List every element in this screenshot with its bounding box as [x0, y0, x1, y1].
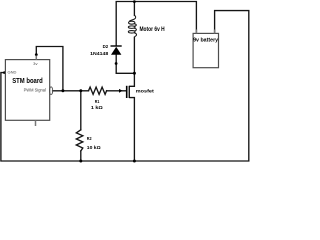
svg-text:GND: GND: [8, 70, 17, 75]
svg-text:1 kΩ: 1 kΩ: [91, 105, 103, 110]
svg-text:Motor 6v H: Motor 6v H: [140, 26, 165, 33]
svg-text:1N4148: 1N4148: [90, 51, 108, 56]
svg-text:PWM Signal: PWM Signal: [24, 87, 46, 92]
svg-text:9v battery: 9v battery: [193, 38, 218, 44]
svg-text:STM board: STM board: [12, 76, 43, 85]
svg-text:R1: R1: [95, 99, 100, 104]
svg-text:R2: R2: [87, 136, 92, 141]
svg-text:3v: 3v: [33, 61, 37, 66]
svg-text:mosfet: mosfet: [136, 89, 154, 95]
svg-text:10 kΩ: 10 kΩ: [87, 145, 101, 150]
svg-text:D2: D2: [103, 44, 109, 49]
